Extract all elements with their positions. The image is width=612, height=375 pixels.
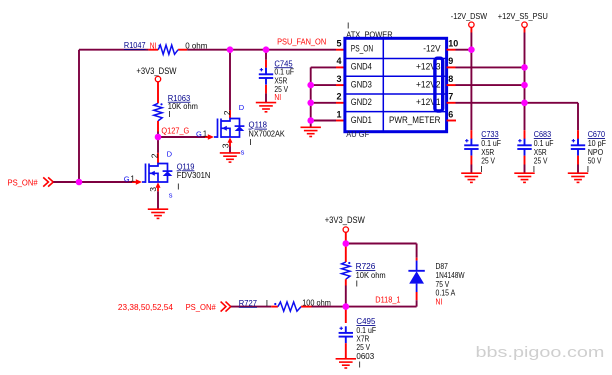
svg-text:G: G	[196, 129, 202, 138]
svg-text:50 V: 50 V	[588, 156, 602, 166]
pin 7 stub	[447, 102, 456, 104]
svg-text:GND3: GND3	[351, 79, 372, 89]
pin 8 stub	[447, 84, 456, 86]
wire node Q127_G to Q118 gate	[158, 136, 205, 138]
svg-text:3: 3	[221, 143, 231, 148]
capacitor C733 symbol	[464, 139, 478, 156]
wire pin7 to C670 branch	[456, 102, 579, 104]
wire pin10 to -12V_DSW	[456, 49, 472, 51]
svg-text:I: I	[168, 109, 170, 119]
svg-text:8: 8	[448, 74, 453, 84]
svg-text:5: 5	[336, 39, 341, 49]
pin C683 top	[524, 130, 526, 139]
Q118 gate pin arrow	[208, 134, 214, 140]
wire left vertical riser	[78, 50, 80, 182]
wire D87 branch bottom	[416, 300, 418, 306]
capacitor C670 symbol	[571, 139, 585, 156]
junction node Q127_G	[155, 134, 162, 141]
svg-text:I: I	[533, 164, 535, 174]
pin 5 stub	[336, 49, 345, 51]
pin D87 anode	[416, 292, 418, 300]
wire GND2 pin 2	[311, 102, 336, 104]
pin 4 stub	[336, 66, 345, 68]
junction node GND bus pin1	[307, 117, 314, 124]
pin -12V_DSW	[470, 27, 472, 32]
wire top rail left of R1047	[79, 49, 148, 51]
pin C495 bottom	[345, 343, 347, 358]
svg-text:3: 3	[336, 74, 341, 84]
pin 1 stub	[336, 120, 345, 122]
pin D87 cathode	[416, 258, 418, 261]
svg-text:PS_ON: PS_ON	[351, 43, 373, 53]
svg-text:1: 1	[130, 174, 135, 183]
capacitor C495 symbol	[339, 326, 353, 343]
svg-text:GND1: GND1	[351, 115, 372, 125]
svg-text:4: 4	[336, 56, 341, 66]
svg-text:I: I	[266, 298, 268, 308]
svg-text:s: s	[241, 147, 245, 156]
wire -12V_DSW vertical	[470, 33, 472, 131]
svg-text:s: s	[169, 191, 173, 200]
pin Q118 gate	[205, 136, 209, 138]
svg-text:-12V_DSW: -12V_DSW	[451, 11, 487, 21]
resistor R1047 pin-1 dot	[159, 45, 161, 47]
svg-text:+3V3_DSW: +3V3_DSW	[325, 215, 366, 225]
pin Q119 drain	[157, 153, 159, 164]
junction node pin7 / +12V_S5_PSU	[521, 100, 528, 107]
pin +3V3_DSW to R1063	[157, 82, 159, 104]
svg-text:6: 6	[448, 109, 453, 119]
svg-text:10K ohm: 10K ohm	[168, 101, 198, 111]
wire top rail to ATX pin 5 (net PSU_FAN_ON)	[187, 49, 336, 51]
svg-text:25 V: 25 V	[481, 156, 495, 166]
transistor Q119 MOSFET symbol	[142, 164, 172, 183]
wire GND3 pin 3	[311, 84, 336, 86]
ground	[301, 127, 321, 136]
svg-text:2: 2	[222, 110, 232, 115]
pin 6 stub	[447, 120, 456, 122]
wire top rail down to Q118 drain	[229, 50, 231, 110]
svg-text:9: 9	[448, 56, 453, 66]
svg-text:23,38,50,52,54: 23,38,50,52,54	[118, 302, 173, 312]
wire D87 branch down	[416, 244, 418, 258]
pin C495 top	[345, 310, 347, 324]
svg-text:NI: NI	[150, 41, 157, 51]
wire +3V3 node to D87 branch top	[346, 243, 417, 245]
connector J ATX_POWER body	[345, 38, 447, 131]
wire to +3V3 node	[345, 241, 347, 244]
power symbol +3V3_DSW bottom	[343, 227, 348, 232]
pin 10 stub	[447, 49, 456, 51]
wire D87 branch back to node	[346, 306, 417, 308]
capacitor C745 symbol	[259, 68, 273, 85]
junction node GND bus pin3	[307, 82, 314, 89]
pin Q118 drain	[229, 110, 231, 119]
svg-text:GND4: GND4	[351, 62, 372, 72]
svg-text:I: I	[587, 164, 589, 174]
svg-text:NX7002AK: NX7002AK	[249, 128, 286, 138]
transistor Q118 MOSFET symbol	[214, 119, 244, 138]
svg-text:+3V3_DSW: +3V3_DSW	[136, 66, 177, 76]
ground	[220, 153, 240, 162]
svg-text:I: I	[480, 164, 482, 174]
diode D87 symbol	[408, 261, 424, 292]
svg-text:PSU_FAN_ON: PSU_FAN_ON	[277, 36, 326, 46]
svg-text:+12V2: +12V2	[416, 79, 441, 89]
svg-text:R727: R727	[239, 298, 257, 308]
pin R727 left	[271, 306, 278, 308]
pin C733 top	[470, 130, 472, 139]
power symbol +12V_S5_PSU	[522, 22, 527, 27]
svg-text:10K ohm: 10K ohm	[356, 270, 386, 280]
svg-text:I: I	[249, 137, 251, 147]
svg-text:+12V1: +12V1	[416, 97, 441, 107]
junction node pin9 / +12V_S5_PSU	[521, 64, 528, 71]
svg-text:NI: NI	[274, 92, 281, 102]
wire R727 to PS_ON# node	[312, 306, 346, 308]
junction node pin8 / +12V_S5_PSU	[521, 82, 528, 89]
ground	[514, 173, 534, 182]
wire C683 to ground	[524, 165, 526, 173]
svg-text:3: 3	[148, 187, 158, 192]
wire pin7 branch down to C670	[577, 103, 579, 130]
svg-text:D: D	[239, 103, 245, 112]
svg-text:AU GF: AU GF	[346, 129, 369, 139]
ground	[461, 173, 481, 182]
power symbol +3V3_DSW top	[155, 76, 160, 81]
port chevron PS_ON# (bottom)	[221, 302, 231, 312]
svg-text:10: 10	[448, 39, 458, 49]
resistor R726 zigzag body	[342, 262, 350, 279]
svg-text:I: I	[356, 279, 358, 289]
junction node pin10 / -12V_DSW	[468, 46, 475, 53]
svg-text:1: 1	[336, 109, 341, 119]
wire C670 to ground	[577, 165, 579, 173]
port chevron PS_ON#	[43, 177, 53, 186]
wire top rail down to C745	[265, 50, 267, 60]
pin Q119 gate	[132, 181, 136, 183]
junction node GND bus pin2	[307, 100, 314, 107]
svg-text:PWR_METER: PWR_METER	[389, 115, 441, 125]
pin C745 top	[265, 60, 267, 68]
svg-text:I: I	[177, 182, 179, 192]
svg-text:2: 2	[150, 153, 160, 158]
svg-text:2: 2	[336, 92, 341, 102]
pin R1063 bottom	[157, 121, 159, 132]
svg-text:+12V3: +12V3	[416, 62, 441, 72]
pin R726 bottom	[345, 279, 347, 285]
junction node PS_ON# bottom	[343, 303, 350, 310]
pin 2 stub	[336, 102, 345, 104]
wire PS_ON# to R727	[231, 306, 271, 308]
svg-text:G: G	[124, 174, 130, 183]
pin 9 stub	[447, 66, 456, 68]
wire node Q127_G down to Q119 drain	[157, 137, 159, 153]
svg-text:+12V_S5_PSU: +12V_S5_PSU	[498, 11, 548, 21]
pin C733 bottom	[470, 156, 472, 165]
pin R727 right	[301, 306, 311, 308]
wire R1063 to node Q127_G	[157, 132, 159, 138]
resistor R1063 zigzag body	[154, 103, 162, 121]
svg-text:PS_ON#: PS_ON#	[186, 302, 216, 312]
ground	[148, 209, 168, 218]
svg-text:I: I	[359, 359, 361, 369]
pin R726 top	[345, 245, 347, 262]
svg-text:D: D	[167, 149, 173, 158]
svg-text:PS_ON#: PS_ON#	[8, 178, 38, 188]
wire +12V_S5_PSU vertical	[524, 33, 526, 131]
pin C683 bottom	[524, 156, 526, 165]
pin C670 top	[577, 130, 579, 139]
pin Q118 source	[229, 141, 231, 147]
capacitor C683 symbol	[517, 139, 531, 156]
wire ground bus vertical	[310, 67, 312, 127]
resistor R1047 pins	[148, 49, 158, 51]
pin Q119 source	[157, 186, 159, 192]
svg-text:R1047: R1047	[124, 40, 146, 50]
wire C733 to ground	[470, 165, 472, 173]
wire Q119 source to ground	[157, 191, 159, 209]
pin +12V_S5_PSU	[524, 27, 526, 32]
ground	[336, 359, 356, 368]
power symbol -12V_DSW	[469, 22, 474, 27]
wire GND1 pin 1	[311, 120, 336, 122]
svg-text:Q127_G: Q127_G	[161, 126, 189, 136]
junction node rail / C745	[263, 46, 270, 53]
ground	[256, 103, 276, 112]
svg-text:25 V: 25 V	[534, 156, 548, 166]
resistor R727 zigzag body	[278, 302, 301, 311]
junction node rail / Q118 drain	[227, 46, 234, 53]
Q118 source pin arrow	[228, 137, 233, 143]
resistor R1047 zigzag body	[158, 45, 178, 54]
junction node +3V3 bottom	[343, 240, 350, 247]
wire C745 to ground	[265, 93, 267, 102]
wire R726 to PS_ON# node	[345, 286, 347, 307]
pin C745 bottom	[265, 85, 267, 94]
svg-text:1: 1	[203, 129, 208, 138]
wire PS_ON# horizontal to Q119 gate	[53, 181, 132, 183]
wire GND4 pin 4	[311, 66, 336, 68]
wire Q118 source to ground	[229, 147, 231, 153]
pin 3 stub	[336, 84, 345, 86]
svg-text:bbs.pigoo.com: bbs.pigoo.com	[476, 345, 605, 361]
svg-text:7: 7	[448, 92, 453, 102]
junction node PS_ON# riser	[76, 179, 83, 186]
wire pin9 to +12V_S5_PSU	[456, 66, 525, 68]
pin +3V3_DSW bottom	[345, 232, 347, 240]
pin C670 bottom	[577, 156, 579, 165]
svg-text:GND2: GND2	[351, 97, 372, 107]
svg-text:NI: NI	[436, 297, 443, 307]
Q119 source pin arrow	[156, 182, 161, 188]
blue bracket over +12V pins	[435, 58, 443, 111]
svg-text:FDV301N: FDV301N	[177, 170, 211, 180]
svg-text:D118_1: D118_1	[375, 295, 400, 305]
svg-text:-12V: -12V	[423, 43, 440, 53]
ground	[568, 173, 588, 182]
wire pin8 to +12V_S5_PSU	[456, 84, 525, 86]
Q119 gate pin arrow	[136, 179, 142, 185]
